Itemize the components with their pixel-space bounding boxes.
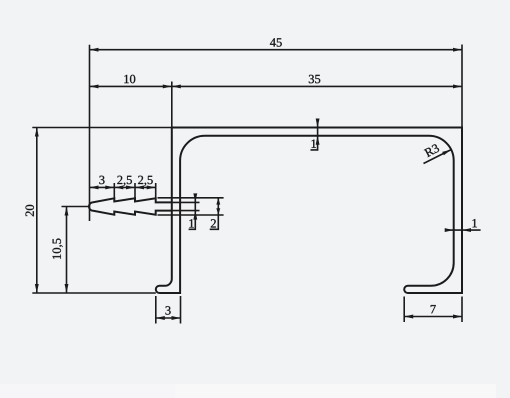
label 2 spike: [211, 219, 216, 227]
bottom white strip: [0, 384, 496, 398]
dim line 7: [404, 316, 462, 318]
arrows right wall 1 (outside): [445, 228, 454, 232]
label 1 spike: [189, 219, 193, 227]
arrows 10,5: [65, 207, 69, 216]
barbed spike: [89, 198, 172, 214]
extension line right x=462: [461, 45, 463, 128]
ext tick 135: [134, 183, 136, 199]
arrow R3: [442, 150, 451, 156]
dim line 20: [36, 128, 38, 294]
spike dim 2 leader: [210, 198, 219, 230]
arrows spike 2 (inside): [216, 198, 220, 205]
label 45: [270, 38, 282, 46]
dim line 3 2,5 2,5: [90, 186, 156, 188]
ext tick 114.3: [113, 183, 115, 199]
arrows 20: [35, 128, 39, 137]
label 1 right wall: [472, 219, 476, 227]
label 10: [124, 75, 135, 83]
spike ext 2 bottom: [158, 214, 224, 216]
arrows 10: [90, 84, 99, 88]
dim line 10,5: [66, 207, 68, 294]
extension line mid x=171.8 top: [171, 82, 173, 128]
spike dim 1 leader: [189, 194, 196, 230]
label 2,5 b: [138, 176, 153, 186]
top wall dim 1 leader: [311, 119, 318, 150]
dim line 45: [90, 49, 463, 51]
extension spike tip: [62, 206, 89, 208]
spike ext 1 bottom: [172, 210, 200, 212]
label 3 bottom: [165, 306, 170, 314]
ext 3 right: [180, 296, 182, 324]
label 3 chain: [99, 176, 104, 184]
dim line 10-35: [90, 85, 463, 87]
label 20: [25, 205, 33, 216]
dim line 3 bottom: [156, 317, 181, 319]
arrows 7: [404, 315, 413, 319]
ext tick 155.7: [155, 183, 157, 200]
right wall dim 1: [445, 229, 480, 231]
label 35: [309, 75, 320, 83]
label R3: [424, 143, 440, 157]
ext 3 left: [155, 296, 157, 324]
profile outline: [156, 128, 462, 294]
label 1 top wall: [312, 140, 316, 148]
spike ext 1 top: [172, 201, 200, 203]
ext 7 left: [403, 297, 405, 323]
arrows 3 chain: [90, 185, 99, 189]
arrows 45: [90, 48, 99, 52]
label 10,5: [52, 239, 62, 259]
arrows spike 1 (outside): [193, 193, 197, 202]
extension line left x=89.5: [89, 45, 91, 221]
arrows 35: [172, 84, 181, 88]
extension bottom left: [32, 292, 156, 294]
arrows top wall 1 (outside): [316, 118, 320, 127]
spike ext 2 top: [158, 197, 224, 199]
R3 leader: [424, 150, 452, 164]
label 7: [431, 305, 436, 313]
arrows 3 bottom: [156, 316, 165, 320]
label 2,5 a: [117, 176, 132, 186]
ext 7 right: [461, 297, 463, 323]
extension top outer left: [32, 127, 172, 129]
